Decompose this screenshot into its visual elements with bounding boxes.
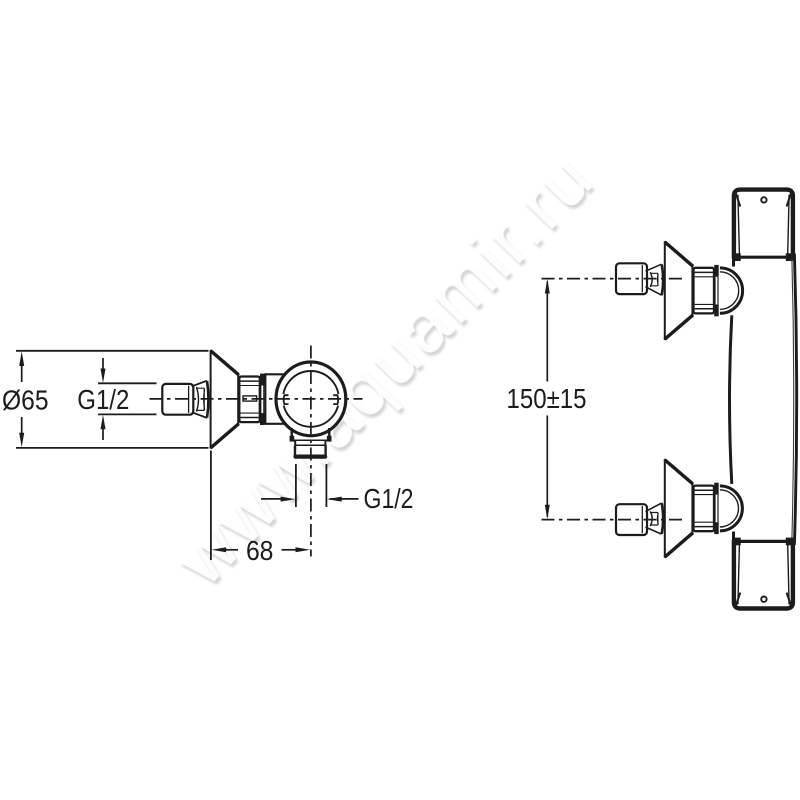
dimension G1/2 arrows (outlet) — [261, 497, 359, 502]
screw hole bottom — [761, 597, 766, 602]
collar between nut and body (side view) — [264, 374, 284, 424]
svg-text:68: 68 — [246, 535, 274, 566]
top wall fitting (front view) — [616, 263, 663, 295]
dimension 68 extension line — [210, 451, 212, 561]
bottom inlet cap arc on body — [720, 486, 743, 531]
watermark www.aquamir.ru — [159, 138, 607, 600]
dimension 150±15 line and arrows — [545, 279, 550, 519]
escutcheon bell and nut (side view) — [211, 350, 265, 448]
dimension Ø65 arrows and line — [19, 351, 24, 447]
right keyway notch on inner circle — [333, 395, 338, 404]
label G1/2 (outlet) — [364, 483, 414, 514]
top inlet cap arc on body — [720, 268, 743, 313]
small highlight rect on nut (side view) — [243, 396, 257, 401]
dimension Ø65 extension lines — [16, 351, 209, 448]
label Ø65 — [2, 384, 49, 415]
svg-text:150±15: 150±15 — [507, 383, 587, 414]
body bottom cap (front view) — [734, 540, 793, 609]
bottom separator line with end blocks — [733, 538, 795, 546]
top escutcheon bell and nut (front view) — [665, 242, 719, 340]
body right edge (front view) — [792, 254, 797, 545]
svg-text:G1/2: G1/2 — [77, 384, 129, 415]
body midsection left edge — [730, 315, 732, 484]
wire: centerline of top inlet (front view) — [542, 278, 687, 280]
label 68 — [246, 535, 274, 566]
body left edge lower segment — [732, 532, 735, 541]
top separator line with end blocks — [733, 253, 795, 261]
bottom escutcheon bell and nut (front view) — [665, 459, 719, 557]
mixer body outer circle (side view) — [276, 362, 346, 436]
dimension 68 line and arrows — [212, 547, 311, 552]
body left edge upper segment — [732, 259, 735, 267]
label 150±15 — [507, 383, 587, 414]
body top cap (front view) — [734, 190, 793, 259]
outlet neck below circle (side view) — [290, 428, 332, 442]
wire: vertical centerline of side view — [310, 346, 312, 557]
outlet connector G1/2 (side view) — [295, 445, 326, 456]
svg-text:Ø65: Ø65 — [2, 384, 49, 415]
dimension G1/2 arrows (fitting) — [101, 358, 106, 440]
wall fitting G1/2 (side view) — [162, 381, 208, 418]
dimension G1/2 extension lines (fitting) — [98, 383, 157, 414]
outlet step (side view) — [295, 440, 325, 445]
left keyway notch on inner circle — [284, 395, 289, 404]
dimension G1/2 extension lines (outlet) — [296, 464, 327, 507]
wire: centerline of bottom inlet (front view) — [542, 519, 687, 521]
bottom wall fitting (front view) — [616, 503, 663, 535]
mixer body inner circle (side view) — [280, 371, 343, 427]
wire: horizontal centerline of side view — [150, 398, 363, 400]
screw hole top — [761, 197, 766, 202]
svg-text:G1/2: G1/2 — [364, 483, 414, 514]
label G1/2 (fitting) — [77, 384, 129, 415]
